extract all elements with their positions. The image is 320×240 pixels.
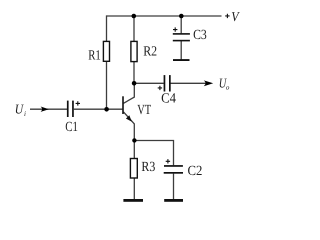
svg-text:R2: R2	[143, 45, 157, 60]
svg-text:i: i	[24, 110, 26, 118]
svg-text:R1: R1	[88, 48, 101, 63]
svg-text:C4: C4	[161, 92, 176, 107]
svg-text:U: U	[15, 102, 24, 117]
svg-text:o: o	[226, 84, 230, 92]
svg-text:C1: C1	[65, 120, 78, 135]
svg-text:R3: R3	[141, 160, 155, 175]
svg-text:C3: C3	[193, 28, 207, 43]
svg-text:C2: C2	[188, 164, 203, 179]
svg-text:VT: VT	[137, 103, 151, 118]
